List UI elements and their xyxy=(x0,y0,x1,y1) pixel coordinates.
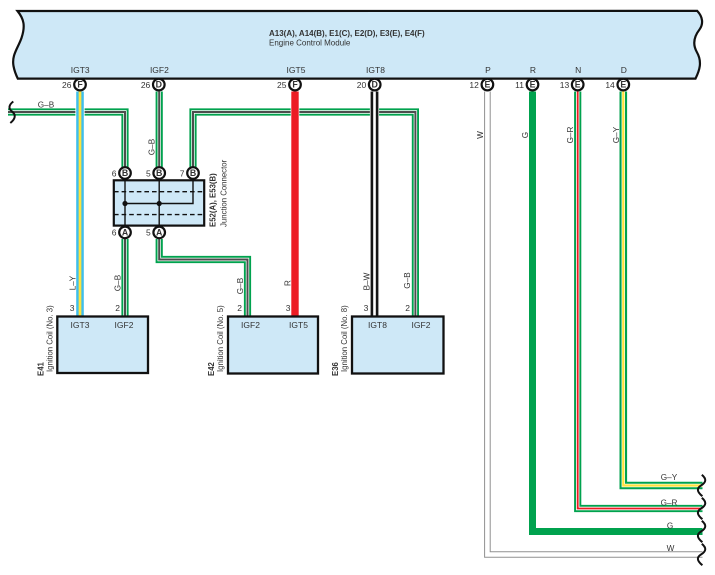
svg-text:F: F xyxy=(292,80,298,90)
svg-text:E52(A), E53(B): E52(A), E53(B) xyxy=(209,173,218,227)
svg-text:26: 26 xyxy=(62,80,72,90)
ECM pin 26 D (IGF2) xyxy=(141,79,165,91)
svg-text:G–B: G–B xyxy=(114,274,123,291)
svg-text:E: E xyxy=(575,80,581,90)
wire G-B from junction 7B up-right-down to E36 IGF2 xyxy=(193,112,415,317)
svg-text:E36: E36 xyxy=(331,361,340,376)
svg-text:N: N xyxy=(575,65,581,75)
wire G-R from N down-right off page xyxy=(578,92,703,509)
svg-text:IGT8: IGT8 xyxy=(368,320,387,330)
junction pin 6B xyxy=(112,167,131,179)
junction node dot left xyxy=(122,201,127,206)
junction pin 5B xyxy=(146,167,165,179)
svg-text:W: W xyxy=(476,131,485,139)
junction dashed line lower xyxy=(114,214,204,216)
svg-text:E: E xyxy=(620,80,626,90)
svg-text:B: B xyxy=(122,168,128,178)
wire G-B from junction 6A down to E41 IGF2 xyxy=(121,239,128,317)
ECM banner A13(A), A14(B), E1(C), E2(D), E3(E), E4(F) xyxy=(13,11,702,79)
tear mark left xyxy=(9,102,14,124)
svg-text:6: 6 xyxy=(112,168,117,178)
wire G from R down-right off page xyxy=(533,92,703,532)
junction connector E52(A), E53(B) box xyxy=(114,180,204,225)
svg-text:5: 5 xyxy=(146,168,151,178)
svg-text:G–B: G–B xyxy=(38,100,55,109)
svg-text:G: G xyxy=(667,522,673,531)
svg-text:E: E xyxy=(484,80,490,90)
svg-text:F: F xyxy=(77,80,83,90)
svg-text:G–R: G–R xyxy=(566,126,575,143)
ECM pin 25 F (IGT5) xyxy=(277,79,301,91)
svg-text:3: 3 xyxy=(286,303,291,313)
svg-text:2: 2 xyxy=(115,303,120,313)
svg-text:G–Y: G–Y xyxy=(661,473,678,482)
wire L-Y from IGT3 to E41 xyxy=(75,92,84,317)
svg-text:B–W: B–W xyxy=(362,272,371,290)
svg-text:13: 13 xyxy=(560,80,570,90)
svg-text:Ignition Coil (No. 3): Ignition Coil (No. 3) xyxy=(45,305,54,372)
svg-text:G: G xyxy=(521,132,530,138)
wire G-B left horizontal to junction 6B xyxy=(8,112,125,167)
svg-text:L–Y: L–Y xyxy=(69,275,78,290)
svg-text:Junction Connector: Junction Connector xyxy=(219,159,228,227)
junction pin 5A xyxy=(146,227,165,239)
svg-text:26: 26 xyxy=(141,80,151,90)
svg-text:Engine Control Module: Engine Control Module xyxy=(269,39,351,48)
svg-text:6: 6 xyxy=(112,228,117,238)
wire B-W from IGT8 to E36 xyxy=(370,92,379,317)
svg-text:G–R: G–R xyxy=(661,499,678,508)
svg-text:IGF2: IGF2 xyxy=(115,320,134,330)
svg-text:G–Y: G–Y xyxy=(612,126,621,143)
junction internal wire 5B-5A xyxy=(158,180,160,225)
svg-text:IGT3: IGT3 xyxy=(71,65,90,75)
svg-text:R: R xyxy=(284,280,293,286)
svg-text:E41: E41 xyxy=(36,361,45,376)
ECM pin 26 F (IGT3) xyxy=(62,79,86,91)
tear mark G xyxy=(698,521,705,542)
svg-text:D: D xyxy=(621,65,627,75)
svg-text:Ignition Coil (No. 5): Ignition Coil (No. 5) xyxy=(216,305,225,372)
svg-text:IGT3: IGT3 xyxy=(71,320,90,330)
svg-text:5: 5 xyxy=(146,228,151,238)
tear mark W xyxy=(698,544,705,565)
junction node dot middle xyxy=(157,201,162,206)
svg-text:20: 20 xyxy=(357,80,367,90)
svg-text:IGF2: IGF2 xyxy=(150,65,169,75)
svg-text:IGF2: IGF2 xyxy=(241,320,260,330)
svg-text:IGF2: IGF2 xyxy=(412,320,431,330)
svg-text:IGT8: IGT8 xyxy=(366,65,385,75)
svg-text:11: 11 xyxy=(515,80,524,90)
svg-text:A13(A), A14(B), E1(C), E2(D),: A13(A), A14(B), E1(C), E2(D), E3(E), E4(… xyxy=(269,29,425,38)
svg-text:B: B xyxy=(156,168,162,178)
wire G-Y from D down-right off page xyxy=(623,92,702,486)
svg-text:E42: E42 xyxy=(207,361,216,376)
svg-text:14: 14 xyxy=(605,80,615,90)
junction pin 6A xyxy=(112,227,131,239)
tear mark G-R xyxy=(698,498,705,519)
svg-text:2: 2 xyxy=(405,303,410,313)
tear mark G-Y xyxy=(698,475,705,496)
svg-text:W: W xyxy=(667,544,675,553)
junction internal wire 6B-6A xyxy=(124,180,126,225)
wire G-B from IGF2 down to junction 5B xyxy=(156,92,163,168)
junction dashed line upper xyxy=(114,191,204,193)
svg-text:2: 2 xyxy=(237,303,242,313)
ignition coil E36 box xyxy=(352,303,444,374)
svg-text:IGT5: IGT5 xyxy=(287,65,306,75)
wire W from P down-right off page xyxy=(487,92,702,555)
svg-text:3: 3 xyxy=(364,303,369,313)
junction pin 7B xyxy=(180,167,199,179)
svg-text:B: B xyxy=(190,168,196,178)
wire R from IGT5 to E42 xyxy=(291,92,300,317)
svg-text:G–B: G–B xyxy=(236,277,245,294)
ignition coil E42 box xyxy=(228,303,318,374)
svg-text:D: D xyxy=(156,80,162,90)
svg-text:3: 3 xyxy=(70,303,75,313)
junction internal wire from 7B xyxy=(125,180,193,203)
svg-text:G–B: G–B xyxy=(403,272,412,289)
svg-text:7: 7 xyxy=(180,168,185,178)
ECM pin 12 E (P) xyxy=(469,79,493,91)
svg-text:P: P xyxy=(485,65,491,75)
ECM pin 13 E (N) xyxy=(560,79,584,91)
wire G-B from junction 5A down-right-down to E42 IGF2 xyxy=(159,239,247,317)
svg-text:E: E xyxy=(530,80,536,90)
svg-text:R: R xyxy=(530,65,536,75)
svg-text:A: A xyxy=(122,228,129,238)
svg-text:12: 12 xyxy=(469,80,479,90)
svg-text:Ignition Coil (No. 8): Ignition Coil (No. 8) xyxy=(340,305,349,372)
ECM pin 11 E (R) xyxy=(515,79,538,91)
svg-text:IGT5: IGT5 xyxy=(289,320,308,330)
svg-text:25: 25 xyxy=(277,80,287,90)
svg-text:D: D xyxy=(372,80,378,90)
svg-text:G–B: G–B xyxy=(148,138,157,155)
ECM pin 14 E (D) xyxy=(605,79,629,91)
ignition coil E41 box xyxy=(57,303,148,373)
svg-text:A: A xyxy=(156,228,163,238)
ECM pin 20 D (IGT8) xyxy=(357,79,381,91)
